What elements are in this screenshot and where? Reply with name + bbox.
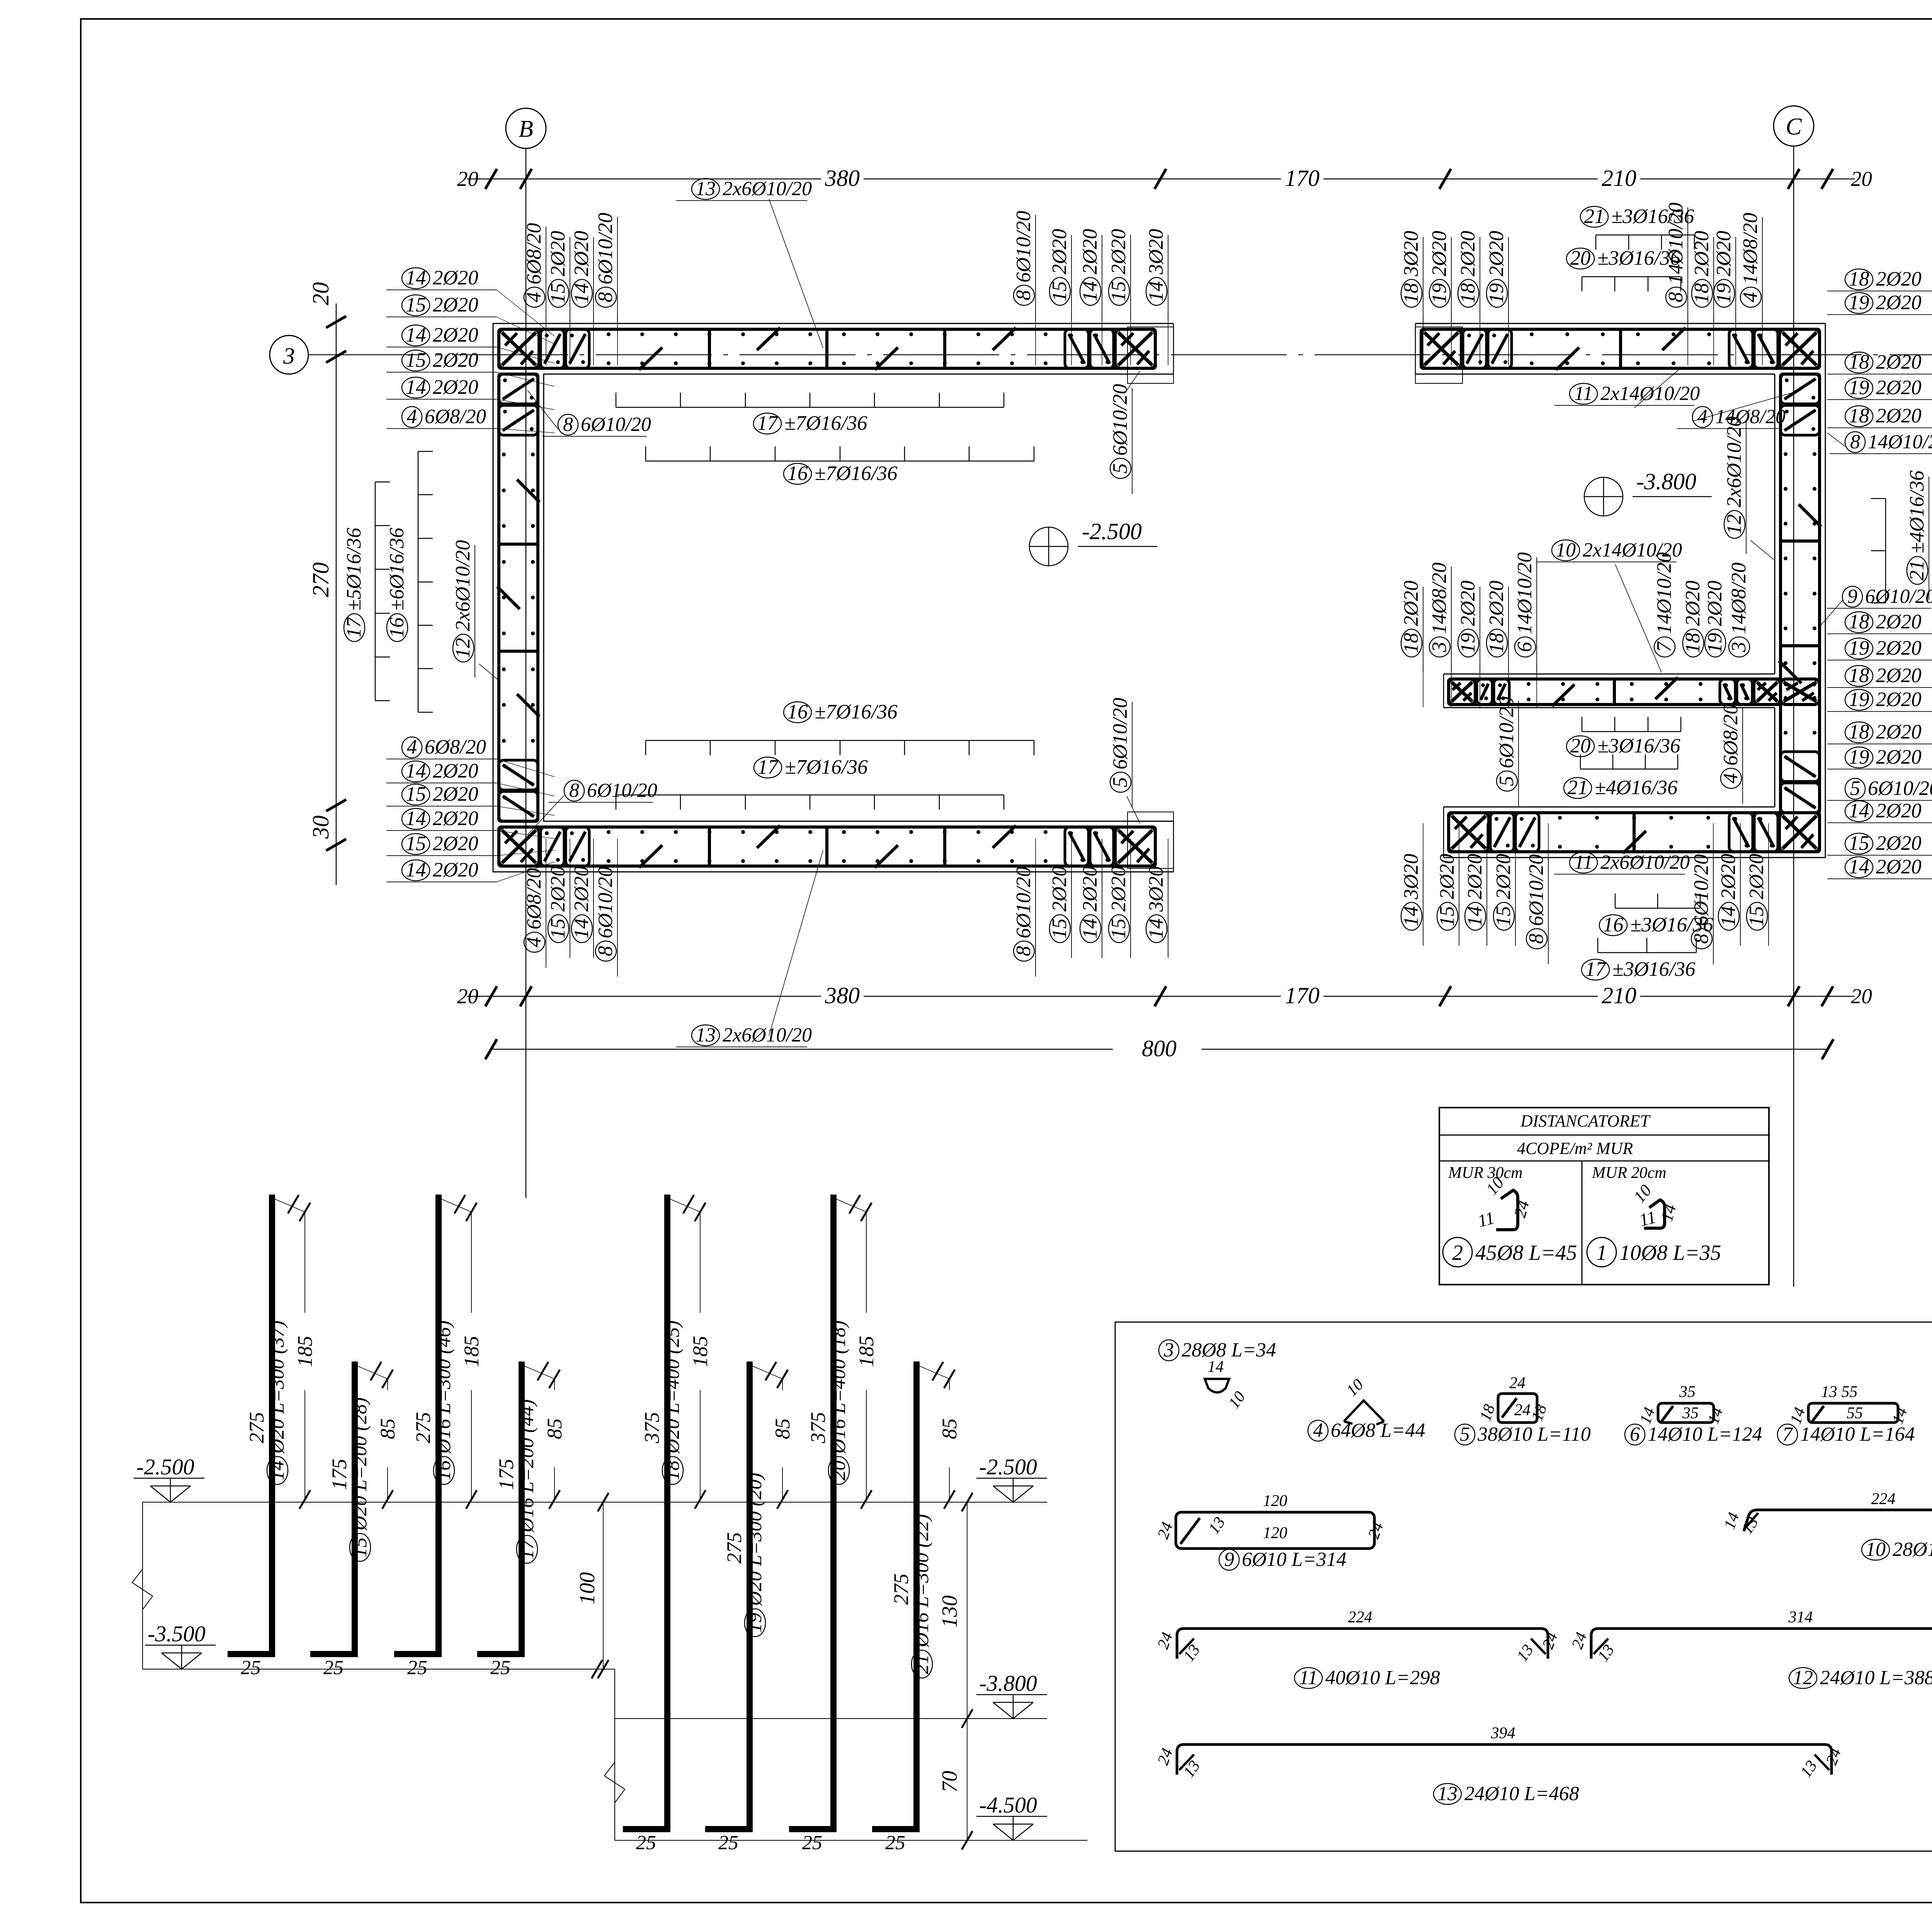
svg-text:Ø16 L=400 (18): Ø16 L=400 (18) <box>828 1321 850 1454</box>
svg-text:17: 17 <box>758 756 779 778</box>
svg-text:14: 14 <box>1145 919 1167 939</box>
svg-text:2Ø20: 2Ø20 <box>1876 291 1922 314</box>
svg-text:14: 14 <box>570 919 593 939</box>
svg-text:4: 4 <box>523 292 545 303</box>
svg-text:6Ø10/20: 6Ø10/20 <box>1109 698 1131 770</box>
svg-text:100: 100 <box>575 1572 599 1605</box>
svg-text:2Ø20: 2Ø20 <box>1400 580 1422 626</box>
svg-text:±7Ø16/36: ±7Ø16/36 <box>784 412 867 434</box>
svg-text:6Ø10/20: 6Ø10/20 <box>1495 697 1518 769</box>
svg-text:±4Ø16/36: ±4Ø16/36 <box>1906 470 1928 553</box>
svg-text:2: 2 <box>1452 1241 1463 1265</box>
svg-text:8: 8 <box>569 779 579 802</box>
svg-text:2Ø20: 2Ø20 <box>433 324 478 346</box>
svg-text:15: 15 <box>1107 281 1130 302</box>
svg-text:45Ø8 L=45: 45Ø8 L=45 <box>1475 1241 1577 1265</box>
svg-text:20: 20 <box>1851 984 1872 1008</box>
svg-text:15: 15 <box>1048 919 1071 939</box>
svg-text:2Ø20: 2Ø20 <box>433 267 478 289</box>
svg-text:17: 17 <box>757 412 779 434</box>
svg-text:6Ø10/20: 6Ø10/20 <box>581 414 651 436</box>
svg-text:18: 18 <box>1400 283 1422 304</box>
svg-text:21: 21 <box>911 1654 933 1674</box>
svg-text:MUR 20cm: MUR 20cm <box>1592 1164 1666 1182</box>
svg-text:B: B <box>519 116 533 142</box>
svg-text:3: 3 <box>1728 642 1750 653</box>
svg-text:2Ø20: 2Ø20 <box>1876 268 1922 290</box>
svg-text:24: 24 <box>1509 1374 1526 1392</box>
svg-text:10: 10 <box>1866 1538 1886 1561</box>
svg-text:6Ø10/20: 6Ø10/20 <box>587 779 657 802</box>
svg-text:6Ø8/20: 6Ø8/20 <box>425 405 486 428</box>
svg-text:2Ø20: 2Ø20 <box>1436 854 1458 899</box>
svg-text:9: 9 <box>1224 1549 1234 1571</box>
svg-text:4: 4 <box>1313 1419 1323 1441</box>
svg-text:C: C <box>1786 114 1802 140</box>
svg-text:28Ø8 L=34: 28Ø8 L=34 <box>1182 1339 1276 1361</box>
svg-text:14: 14 <box>406 807 426 830</box>
svg-text:19: 19 <box>1704 633 1726 654</box>
svg-text:3: 3 <box>1163 1339 1174 1361</box>
svg-text:2Ø20: 2Ø20 <box>433 294 478 316</box>
svg-text:5: 5 <box>1495 776 1518 786</box>
svg-text:16: 16 <box>433 1460 455 1481</box>
svg-text:14: 14 <box>1145 281 1167 302</box>
svg-text:7: 7 <box>1782 1423 1793 1445</box>
svg-text:15: 15 <box>406 349 426 371</box>
svg-text:6: 6 <box>1630 1423 1640 1445</box>
svg-text:2Ø20: 2Ø20 <box>1690 231 1713 276</box>
svg-text:18: 18 <box>1849 351 1869 373</box>
svg-text:2Ø20: 2Ø20 <box>1107 866 1130 912</box>
svg-text:±7Ø16/36: ±7Ø16/36 <box>785 756 868 778</box>
svg-text:±5Ø16/36: ±5Ø16/36 <box>343 528 365 611</box>
svg-text:3Ø20: 3Ø20 <box>1400 231 1422 277</box>
svg-text:13: 13 <box>1437 1783 1458 1805</box>
svg-text:2Ø20: 2Ø20 <box>1428 231 1451 276</box>
svg-text:2Ø20: 2Ø20 <box>1876 351 1922 373</box>
svg-text:2x6Ø10/20: 2x6Ø10/20 <box>1600 851 1690 873</box>
svg-text:13 55: 13 55 <box>1821 1383 1858 1401</box>
svg-text:2Ø20: 2Ø20 <box>1485 580 1508 626</box>
svg-text:14: 14 <box>1400 906 1422 927</box>
svg-text:2Ø20: 2Ø20 <box>1713 231 1735 276</box>
svg-text:6Ø10/20: 6Ø10/20 <box>1865 585 1932 608</box>
svg-text:2Ø20: 2Ø20 <box>1048 229 1071 274</box>
svg-text:15: 15 <box>1048 281 1071 302</box>
svg-text:13: 13 <box>696 178 716 200</box>
svg-text:2Ø20: 2Ø20 <box>1876 405 1922 427</box>
svg-text:19: 19 <box>1849 637 1869 659</box>
svg-text:19: 19 <box>1485 283 1508 304</box>
svg-text:20: 20 <box>308 282 333 305</box>
svg-text:14: 14 <box>406 267 426 289</box>
svg-text:11: 11 <box>1574 851 1593 873</box>
svg-text:19: 19 <box>1849 376 1869 399</box>
svg-text:15: 15 <box>406 832 426 855</box>
svg-text:6Ø10/20: 6Ø10/20 <box>1868 777 1932 800</box>
svg-text:-2.500: -2.500 <box>136 1454 194 1479</box>
svg-text:275: 275 <box>723 1532 746 1564</box>
svg-text:18: 18 <box>1682 633 1704 654</box>
svg-text:380: 380 <box>825 983 860 1008</box>
svg-text:14Ø10/20: 14Ø10/20 <box>1514 552 1536 634</box>
svg-text:2Ø20: 2Ø20 <box>547 866 569 912</box>
svg-text:120: 120 <box>1263 1524 1287 1542</box>
svg-text:2Ø20: 2Ø20 <box>1876 721 1922 743</box>
svg-text:16: 16 <box>787 462 808 485</box>
svg-text:170: 170 <box>1285 165 1320 191</box>
svg-text:6Ø10/20: 6Ø10/20 <box>1012 867 1035 939</box>
svg-text:17: 17 <box>1585 958 1607 980</box>
svg-text:15: 15 <box>1107 919 1130 939</box>
svg-text:17: 17 <box>516 1538 538 1559</box>
svg-text:1: 1 <box>1596 1241 1607 1265</box>
svg-text:18: 18 <box>1485 633 1508 654</box>
svg-text:2Ø20: 2Ø20 <box>570 866 593 912</box>
svg-text:185: 185 <box>855 1336 878 1367</box>
svg-text:4COPE/m² MUR: 4COPE/m² MUR <box>1517 1139 1633 1158</box>
svg-text:2Ø20: 2Ø20 <box>433 859 478 881</box>
svg-text:-2.500: -2.500 <box>1082 519 1142 544</box>
svg-text:19: 19 <box>1457 633 1479 654</box>
svg-text:3Ø20: 3Ø20 <box>1145 866 1167 912</box>
svg-text:2Ø20: 2Ø20 <box>1876 832 1922 854</box>
svg-text:14: 14 <box>406 859 426 881</box>
svg-text:11: 11 <box>1299 1667 1318 1689</box>
svg-text:Ø20 L=200 (28): Ø20 L=200 (28) <box>349 1397 371 1531</box>
svg-text:175: 175 <box>495 1459 518 1490</box>
svg-text:20: 20 <box>1570 247 1591 269</box>
svg-text:8: 8 <box>594 946 617 956</box>
svg-text:25: 25 <box>885 1832 905 1854</box>
svg-text:8: 8 <box>1665 292 1687 303</box>
svg-text:85: 85 <box>771 1418 794 1439</box>
svg-text:25: 25 <box>241 1657 261 1679</box>
svg-text:35: 35 <box>1682 1404 1699 1422</box>
svg-text:2Ø20: 2Ø20 <box>1682 580 1704 626</box>
svg-text:14: 14 <box>1717 906 1740 927</box>
svg-text:3: 3 <box>283 343 295 369</box>
svg-text:2Ø20: 2Ø20 <box>433 760 478 782</box>
svg-text:15: 15 <box>547 283 569 304</box>
svg-text:4: 4 <box>1739 292 1762 303</box>
svg-text:6Ø10/20: 6Ø10/20 <box>1012 211 1035 283</box>
svg-text:14Ø10/20: 14Ø10/20 <box>1868 431 1932 453</box>
svg-text:375: 375 <box>640 1412 663 1444</box>
svg-text:25: 25 <box>323 1657 344 1679</box>
svg-text:2Ø20: 2Ø20 <box>570 231 593 276</box>
svg-text:6Ø10/20: 6Ø10/20 <box>594 867 617 939</box>
svg-text:18: 18 <box>1849 664 1869 687</box>
svg-text:2Ø20: 2Ø20 <box>433 832 478 855</box>
svg-text:2x6Ø10/20: 2x6Ø10/20 <box>723 1024 812 1046</box>
svg-text:85: 85 <box>938 1418 961 1439</box>
svg-text:20: 20 <box>1851 167 1872 191</box>
svg-text:8: 8 <box>1850 431 1860 453</box>
svg-text:14: 14 <box>406 376 426 398</box>
svg-text:275: 275 <box>245 1412 268 1443</box>
svg-text:55: 55 <box>1847 1404 1863 1422</box>
svg-text:14Ø10 L=164: 14Ø10 L=164 <box>1800 1423 1915 1445</box>
svg-text:2Ø20: 2Ø20 <box>1876 688 1922 711</box>
svg-text:±4Ø16/36: ±4Ø16/36 <box>1595 776 1678 799</box>
svg-text:25: 25 <box>407 1657 427 1679</box>
svg-text:19: 19 <box>1849 688 1869 711</box>
svg-text:±3Ø16/36: ±3Ø16/36 <box>1597 735 1680 757</box>
svg-text:85: 85 <box>376 1418 399 1439</box>
svg-text:14: 14 <box>570 283 593 304</box>
svg-text:-4.500: -4.500 <box>979 1792 1037 1818</box>
svg-text:120: 120 <box>1263 1492 1287 1510</box>
svg-text:85: 85 <box>543 1418 566 1439</box>
svg-text:25: 25 <box>636 1832 656 1854</box>
svg-text:18: 18 <box>1400 633 1422 654</box>
svg-text:10: 10 <box>1556 539 1576 561</box>
svg-text:15: 15 <box>349 1537 371 1557</box>
svg-text:15: 15 <box>1492 906 1515 927</box>
svg-text:2x6Ø10/20: 2x6Ø10/20 <box>1723 416 1745 507</box>
svg-text:380: 380 <box>825 165 860 191</box>
svg-text:20: 20 <box>1570 735 1591 757</box>
svg-text:40Ø10 L=298: 40Ø10 L=298 <box>1325 1667 1440 1689</box>
svg-text:314: 314 <box>1788 1608 1813 1626</box>
svg-text:175: 175 <box>328 1459 351 1490</box>
svg-text:3Ø20: 3Ø20 <box>1145 229 1167 275</box>
svg-text:14: 14 <box>406 324 426 346</box>
svg-text:2Ø20: 2Ø20 <box>1876 746 1922 768</box>
svg-text:2x6Ø10/20: 2x6Ø10/20 <box>723 178 812 200</box>
svg-text:2Ø20: 2Ø20 <box>1457 231 1479 276</box>
svg-text:±7Ø16/36: ±7Ø16/36 <box>815 462 898 485</box>
svg-text:130: 130 <box>938 1595 962 1628</box>
svg-text:10Ø8 L=35: 10Ø8 L=35 <box>1619 1241 1721 1265</box>
svg-text:21: 21 <box>1584 205 1605 228</box>
svg-text:±3Ø16/36: ±3Ø16/36 <box>1630 914 1713 936</box>
svg-text:8: 8 <box>1012 290 1035 301</box>
svg-text:2Ø20: 2Ø20 <box>1107 229 1130 274</box>
svg-text:2Ø20: 2Ø20 <box>1876 856 1922 878</box>
svg-text:14Ø10 L=124: 14Ø10 L=124 <box>1648 1423 1762 1445</box>
svg-text:7: 7 <box>1653 641 1675 652</box>
svg-text:18: 18 <box>1849 721 1869 743</box>
svg-text:Ø20 L=300 (20): Ø20 L=300 (20) <box>744 1473 766 1606</box>
svg-text:5: 5 <box>1109 777 1131 788</box>
svg-text:-3.500: -3.500 <box>148 1621 206 1646</box>
svg-text:185: 185 <box>689 1336 712 1367</box>
svg-text:19: 19 <box>1713 283 1735 304</box>
svg-text:Ø16 L=200 (44): Ø16 L=200 (44) <box>516 1399 538 1533</box>
svg-text:24: 24 <box>1514 1401 1531 1419</box>
svg-text:6Ø8/20: 6Ø8/20 <box>523 868 545 929</box>
svg-text:185: 185 <box>293 1336 316 1367</box>
svg-text:8: 8 <box>1012 946 1035 956</box>
svg-text:394: 394 <box>1491 1724 1515 1742</box>
svg-text:2Ø20: 2Ø20 <box>1876 800 1922 822</box>
svg-text:5: 5 <box>1109 463 1131 474</box>
svg-text:270: 270 <box>308 562 333 597</box>
svg-text:18: 18 <box>1849 405 1869 427</box>
svg-text:12: 12 <box>1793 1667 1813 1689</box>
svg-text:18: 18 <box>1849 611 1869 633</box>
svg-text:-2.500: -2.500 <box>979 1454 1037 1479</box>
svg-text:210: 210 <box>1602 983 1636 1008</box>
svg-text:15: 15 <box>406 294 426 316</box>
svg-text:14: 14 <box>406 760 426 782</box>
svg-text:2Ø20: 2Ø20 <box>1464 854 1486 899</box>
svg-text:224: 224 <box>1348 1608 1372 1626</box>
svg-text:15: 15 <box>547 919 569 939</box>
svg-text:30: 30 <box>308 815 333 839</box>
svg-text:5: 5 <box>1460 1423 1470 1445</box>
svg-text:2Ø20: 2Ø20 <box>1876 637 1922 659</box>
svg-text:14: 14 <box>1849 856 1869 878</box>
svg-text:2Ø20: 2Ø20 <box>1457 580 1479 626</box>
svg-text:12: 12 <box>452 638 474 659</box>
svg-text:8: 8 <box>1525 934 1548 944</box>
svg-text:19: 19 <box>1428 283 1451 304</box>
svg-text:16: 16 <box>1603 914 1624 936</box>
svg-text:3Ø20: 3Ø20 <box>1400 854 1422 900</box>
svg-text:19: 19 <box>1849 291 1869 314</box>
svg-text:16: 16 <box>787 701 808 723</box>
svg-text:±3Ø16/36: ±3Ø16/36 <box>1612 958 1696 980</box>
svg-text:2Ø20: 2Ø20 <box>1704 580 1726 626</box>
svg-text:28Ø10 L=278: 28Ø10 L=278 <box>1893 1538 1932 1561</box>
svg-text:2x14Ø10/20: 2x14Ø10/20 <box>1600 383 1700 405</box>
svg-text:14Ø10/20: 14Ø10/20 <box>1653 552 1675 634</box>
svg-text:2Ø20: 2Ø20 <box>433 783 478 805</box>
svg-text:8: 8 <box>563 414 573 436</box>
svg-text:15: 15 <box>1745 906 1768 927</box>
svg-text:-3.800: -3.800 <box>1636 469 1696 494</box>
svg-text:17: 17 <box>343 616 365 638</box>
svg-text:2Ø20: 2Ø20 <box>1079 866 1101 912</box>
svg-text:2Ø20: 2Ø20 <box>1079 229 1101 274</box>
svg-text:4: 4 <box>1719 773 1742 784</box>
svg-text:20: 20 <box>457 167 478 191</box>
svg-text:38Ø10 L=110: 38Ø10 L=110 <box>1477 1423 1591 1445</box>
svg-text:21: 21 <box>1568 776 1588 799</box>
svg-text:275: 275 <box>889 1574 913 1605</box>
svg-text:2Ø20: 2Ø20 <box>433 349 478 371</box>
svg-text:6Ø10 L=314: 6Ø10 L=314 <box>1242 1549 1347 1571</box>
svg-text:20: 20 <box>457 984 478 1008</box>
svg-text:2x6Ø10/20: 2x6Ø10/20 <box>452 540 474 631</box>
svg-text:25: 25 <box>490 1657 510 1679</box>
svg-text:Ø16 L=300 (46): Ø16 L=300 (46) <box>433 1321 455 1454</box>
svg-text:14: 14 <box>1849 800 1869 822</box>
svg-text:18: 18 <box>662 1460 684 1481</box>
svg-text:14Ø8/20: 14Ø8/20 <box>1728 563 1750 635</box>
svg-text:70: 70 <box>938 1771 962 1792</box>
svg-text:35: 35 <box>1679 1383 1696 1401</box>
svg-text:14: 14 <box>1079 919 1101 939</box>
svg-text:14: 14 <box>1207 1358 1224 1376</box>
svg-text:2Ø20: 2Ø20 <box>1745 854 1768 899</box>
svg-text:6: 6 <box>1514 642 1536 652</box>
svg-text:14Ø8/20: 14Ø8/20 <box>1428 563 1451 635</box>
svg-text:20: 20 <box>828 1460 850 1481</box>
svg-text:Ø16 L=300 (22): Ø16 L=300 (22) <box>911 1514 933 1647</box>
svg-text:6Ø10/20: 6Ø10/20 <box>594 213 617 285</box>
svg-text:18: 18 <box>1849 268 1869 290</box>
svg-text:±7Ø16/36: ±7Ø16/36 <box>815 701 898 723</box>
svg-text:800: 800 <box>1142 1036 1177 1061</box>
svg-text:DISTANCATORET: DISTANCATORET <box>1520 1111 1651 1130</box>
svg-text:15: 15 <box>1436 906 1458 927</box>
svg-text:6Ø8/20: 6Ø8/20 <box>523 223 545 284</box>
svg-text:14Ø8/20: 14Ø8/20 <box>1739 213 1762 285</box>
svg-text:15: 15 <box>1849 832 1869 854</box>
svg-text:14: 14 <box>1079 281 1101 302</box>
svg-text:2Ø20: 2Ø20 <box>1048 866 1071 912</box>
svg-text:19: 19 <box>1849 746 1869 768</box>
svg-text:21: 21 <box>1906 560 1928 581</box>
svg-text:2Ø20: 2Ø20 <box>1485 231 1508 276</box>
svg-text:MUR 30cm: MUR 30cm <box>1448 1164 1522 1182</box>
svg-text:275: 275 <box>412 1412 435 1443</box>
svg-text:12: 12 <box>1723 514 1745 535</box>
svg-text:14: 14 <box>266 1460 288 1481</box>
svg-text:18: 18 <box>1457 283 1479 304</box>
svg-text:2Ø20: 2Ø20 <box>433 807 478 830</box>
svg-text:210: 210 <box>1602 165 1636 191</box>
svg-text:2Ø20: 2Ø20 <box>1876 664 1922 687</box>
svg-text:±3Ø16/36: ±3Ø16/36 <box>1611 205 1694 228</box>
svg-text:6Ø8/20: 6Ø8/20 <box>1719 704 1742 766</box>
svg-text:6Ø8/20: 6Ø8/20 <box>425 736 486 758</box>
svg-text:±6Ø16/36: ±6Ø16/36 <box>386 528 408 611</box>
svg-text:13: 13 <box>696 1024 716 1046</box>
svg-text:224: 224 <box>1871 1490 1896 1508</box>
svg-text:16: 16 <box>386 617 408 638</box>
svg-text:4: 4 <box>407 405 417 428</box>
svg-text:375: 375 <box>806 1412 830 1444</box>
svg-text:9: 9 <box>1847 585 1857 608</box>
svg-text:24Ø10 L=468: 24Ø10 L=468 <box>1464 1783 1579 1805</box>
svg-text:6Ø10/20: 6Ø10/20 <box>1109 384 1131 456</box>
svg-text:Ø20 L=300 (37): Ø20 L=300 (37) <box>266 1321 288 1454</box>
svg-text:2Ø20: 2Ø20 <box>1492 854 1515 899</box>
svg-text:5: 5 <box>1850 777 1861 800</box>
svg-text:2Ø20: 2Ø20 <box>1876 376 1922 399</box>
svg-text:Ø20 L=400 (25): Ø20 L=400 (25) <box>662 1321 684 1454</box>
svg-text:±3Ø16/36: ±3Ø16/36 <box>1597 247 1680 269</box>
svg-text:2Ø20: 2Ø20 <box>1876 611 1922 633</box>
svg-text:2Ø20: 2Ø20 <box>547 231 569 276</box>
svg-text:19: 19 <box>744 1613 766 1633</box>
svg-text:11: 11 <box>1574 383 1593 405</box>
svg-text:8: 8 <box>594 292 617 303</box>
svg-text:3: 3 <box>1428 642 1451 653</box>
svg-text:25: 25 <box>802 1832 822 1854</box>
svg-text:2Ø20: 2Ø20 <box>433 376 478 398</box>
svg-text:2Ø20: 2Ø20 <box>1717 854 1740 899</box>
svg-text:-3.800: -3.800 <box>979 1671 1037 1696</box>
svg-text:18: 18 <box>1690 283 1713 304</box>
svg-text:6Ø10/20: 6Ø10/20 <box>1525 854 1548 926</box>
svg-text:170: 170 <box>1285 983 1320 1008</box>
svg-text:15: 15 <box>406 783 426 805</box>
svg-text:25: 25 <box>718 1832 738 1854</box>
svg-text:185: 185 <box>460 1336 483 1367</box>
svg-text:4: 4 <box>407 736 417 758</box>
svg-text:24Ø10 L=388: 24Ø10 L=388 <box>1820 1667 1932 1689</box>
svg-text:64Ø8 L=44: 64Ø8 L=44 <box>1331 1419 1425 1441</box>
svg-text:14: 14 <box>1464 906 1486 927</box>
svg-text:4: 4 <box>1697 406 1708 428</box>
